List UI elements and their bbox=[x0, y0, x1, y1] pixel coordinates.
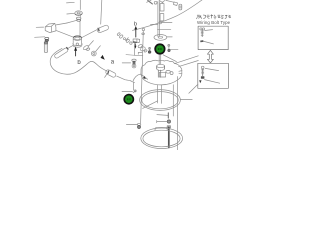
ring1 rim inner bbox=[142, 92, 178, 109]
shaft top tick bbox=[167, 113, 169, 118]
line cube to hub bbox=[56, 31, 73, 38]
bottom cotter bolt bbox=[137, 123, 140, 128]
leader bracket small rect bbox=[133, 39, 140, 43]
box2 external leader bbox=[189, 84, 198, 93]
circle part right of hub bbox=[91, 51, 96, 56]
svg-text:b: b bbox=[134, 21, 137, 27]
cone washer right of hub bbox=[83, 45, 91, 51]
slot rect R1 bbox=[160, 4, 164, 11]
small bolt leader bbox=[122, 62, 130, 64]
line B2 to hub bbox=[69, 45, 74, 48]
nut P2 bbox=[76, 17, 81, 21]
pin B2 bbox=[54, 47, 69, 58]
leader tick top of bolt stack bbox=[67, 1, 75, 4]
bottom bolt leader bbox=[126, 124, 137, 126]
cube slider bbox=[45, 23, 56, 32]
cotter pin P4 right of dot bbox=[168, 44, 170, 51]
screw on ring1 edge bbox=[133, 90, 136, 93]
box1 wing bolt bbox=[200, 28, 205, 37]
diagonal leader to shaft top bbox=[157, 114, 168, 117]
clevis fork bbox=[131, 74, 148, 90]
box2 leader 1 bbox=[205, 68, 218, 70]
circle leader bbox=[162, 21, 172, 23]
box2 arrow down bbox=[199, 80, 201, 83]
arrow3 head bbox=[134, 44, 136, 49]
cluster rollers bbox=[138, 44, 148, 53]
arrow3 leader bbox=[126, 54, 134, 57]
connector branch tick bbox=[105, 73, 108, 78]
box2 leader 2 bbox=[205, 80, 220, 84]
line hub to pin B1 bbox=[82, 30, 97, 38]
arrow a bbox=[101, 55, 105, 60]
shaft right leader lower bbox=[157, 28, 170, 30]
pin B1 top leader bbox=[101, 0, 102, 24]
slot rect R2 bbox=[160, 14, 164, 21]
washer W2 bbox=[154, 35, 167, 41]
green marker dot 1 bbox=[154, 43, 165, 54]
pin B1 bbox=[97, 25, 110, 34]
ring2 rim outer bbox=[141, 128, 183, 149]
cotter pin P3 bbox=[148, 47, 151, 53]
leader plumbing long vertical bbox=[141, 31, 144, 123]
cable inner wire tail bbox=[117, 76, 131, 81]
screw leader bbox=[122, 91, 133, 93]
arrow b upper bbox=[134, 26, 137, 37]
top diagonal to flag bbox=[166, 0, 174, 2]
dome leader to box1 bbox=[175, 56, 199, 64]
arrow b bbox=[74, 47, 77, 56]
small cylinder top right bbox=[179, 4, 182, 10]
box2 wing bolt bbox=[201, 66, 205, 79]
box1 leader 1 bbox=[205, 29, 213, 32]
upper cable long curve bbox=[133, 0, 203, 30]
nut N1 bbox=[45, 37, 49, 41]
cube leader bbox=[36, 26, 43, 28]
gear head dome housing bbox=[141, 60, 182, 85]
washer W1 bbox=[75, 11, 83, 15]
top edge screw marks bbox=[147, 0, 165, 4]
chain end tick bbox=[126, 38, 129, 41]
bolt shaft dashes top-left stack bbox=[79, 0, 81, 36]
leader plumbing vertical short bbox=[134, 43, 136, 55]
bearing cylinder bbox=[157, 64, 165, 70]
alignment vertical mid bbox=[172, 85, 174, 116]
ball leader bbox=[157, 121, 167, 123]
line cube to nut leader bbox=[56, 23, 67, 25]
flag part bbox=[174, 2, 178, 6]
title text katakana simulated bbox=[197, 15, 231, 20]
small parts chain upper bbox=[117, 32, 132, 44]
double arrow between boxes bbox=[207, 50, 213, 63]
ring1 rim outer bbox=[140, 90, 181, 111]
small screws on long leader top bbox=[142, 28, 145, 34]
small circle on shaft bbox=[159, 21, 161, 23]
washer W2 leader bbox=[167, 36, 173, 38]
head shaft double line bbox=[158, 1, 160, 36]
drive shaft dark bbox=[168, 127, 170, 147]
alignment vertical right long bbox=[177, 77, 179, 150]
green marker dot 2 bbox=[123, 94, 134, 105]
circle part leader line bbox=[96, 46, 101, 51]
dome leader to box2 bbox=[179, 61, 199, 67]
washer W1 leader bbox=[67, 12, 75, 15]
ring1 leader right bbox=[181, 99, 193, 101]
hub cylinder bbox=[73, 36, 83, 47]
ring2 rim inner bbox=[143, 130, 180, 147]
callout box1 bbox=[198, 26, 228, 49]
shaft left tick bbox=[151, 23, 158, 25]
stud S1 bbox=[44, 42, 47, 53]
cone leader line bbox=[88, 41, 93, 47]
bracket mark left of dot bbox=[138, 52, 142, 54]
cable end connector bbox=[105, 69, 116, 78]
nut N1 leader bbox=[35, 36, 45, 39]
throttle cable loop bbox=[50, 48, 107, 74]
leader plumbing horizontal bbox=[135, 54, 143, 56]
small bolt left of dome bbox=[132, 59, 136, 68]
alignment vertical left pair bbox=[158, 85, 162, 103]
svg-text:Wiring Bolt Type: Wiring Bolt Type bbox=[197, 20, 231, 25]
small diagonal inside ring1 bbox=[143, 101, 158, 109]
ball on shaft bbox=[167, 120, 170, 123]
pin P4 leader bbox=[170, 48, 178, 50]
ring2 top tab bbox=[155, 127, 167, 130]
nut P2 leader bbox=[67, 20, 76, 23]
box1 dark nut bbox=[200, 40, 203, 42]
washer on shaft bbox=[167, 126, 170, 128]
box1 leader 2 bbox=[204, 41, 214, 44]
diagonal from dot to dome bbox=[163, 55, 176, 62]
shaft segment below dot bbox=[159, 55, 161, 65]
callout box2 bbox=[198, 63, 229, 88]
